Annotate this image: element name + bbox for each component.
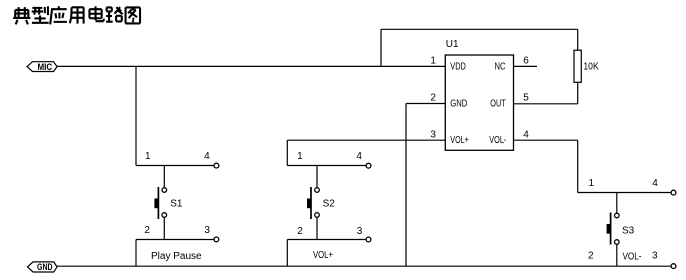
- svg-text:4: 4: [523, 129, 529, 140]
- wire resistor bottom: [577, 82, 579, 104]
- svg-text:1: 1: [589, 178, 595, 189]
- svg-text:5: 5: [523, 93, 529, 104]
- svg-text:3: 3: [430, 129, 436, 140]
- net label MIC: [27, 62, 57, 73]
- pin 3 terminal on rail: [671, 264, 676, 269]
- button S3: [616, 193, 618, 214]
- switch S2: [287, 151, 371, 266]
- svg-text:3: 3: [357, 226, 363, 237]
- svg-text:VOL-: VOL-: [623, 251, 642, 262]
- button S1: [163, 166, 165, 188]
- button S2: [316, 166, 318, 188]
- switch S3: [578, 178, 676, 269]
- wire MIC net: [57, 65, 445, 67]
- svg-text:6: 6: [523, 56, 529, 67]
- svg-text:VOL-: VOL-: [489, 135, 506, 146]
- svg-text:VDD: VDD: [450, 62, 466, 73]
- 图: [126, 7, 140, 23]
- 应: [50, 6, 67, 24]
- resistor R 10K: [574, 50, 599, 82]
- svg-text:3: 3: [204, 225, 210, 236]
- 电: [89, 6, 103, 21]
- svg-text:2: 2: [430, 93, 436, 104]
- op-amp U1 body: [430, 39, 529, 150]
- wire top feedback: [381, 28, 578, 30]
- svg-text:2: 2: [588, 251, 594, 262]
- wire S1 bottom: [136, 239, 214, 241]
- wire GND rail: [57, 265, 672, 267]
- pin 4 terminal: [214, 163, 219, 168]
- svg-text:1: 1: [145, 151, 151, 162]
- svg-text:S2: S2: [323, 199, 336, 210]
- wire S1 pin1 drop: [135, 66, 137, 165]
- wire S2 bottom: [287, 239, 366, 241]
- svg-text:MIC: MIC: [37, 62, 52, 73]
- wire S1 to rail: [135, 240, 137, 267]
- svg-text:4: 4: [652, 178, 658, 189]
- wire VOL+ pin3: [287, 139, 445, 141]
- wire resistor top: [577, 29, 579, 50]
- svg-text:S1: S1: [170, 199, 183, 210]
- svg-text:2: 2: [297, 226, 303, 237]
- wire S3 drop: [577, 140, 579, 192]
- switch S1: [136, 66, 219, 266]
- svg-text:VOL+: VOL+: [450, 135, 469, 146]
- svg-text:NC: NC: [495, 62, 506, 73]
- svg-text:VOL+: VOL+: [313, 250, 333, 261]
- wire S2 top: [287, 165, 366, 167]
- wire VOL- pin4: [514, 139, 578, 141]
- svg-text:3: 3: [652, 251, 658, 262]
- wire OUT pin5: [514, 103, 578, 105]
- svg-text:2: 2: [144, 225, 150, 236]
- svg-text:10K: 10K: [583, 61, 599, 72]
- wire GND pin2 stub: [406, 103, 445, 105]
- wire S3 top: [578, 192, 672, 194]
- net label GND: [28, 262, 58, 273]
- wire vertical tap to top: [380, 29, 382, 66]
- svg-text:U1: U1: [446, 39, 459, 50]
- svg-text:GND: GND: [450, 99, 467, 110]
- svg-text:OUT: OUT: [490, 99, 506, 110]
- wire S2 drop: [286, 140, 288, 165]
- svg-text:Play Pause: Play Pause: [151, 251, 202, 262]
- wire NC pin6 stub: [514, 65, 538, 67]
- wire S1 top: [136, 165, 214, 167]
- 典: [13, 7, 30, 24]
- svg-text:GND: GND: [37, 262, 53, 273]
- 型: [32, 6, 49, 22]
- svg-text:4: 4: [356, 151, 362, 162]
- svg-text:1: 1: [430, 56, 436, 67]
- svg-text:S3: S3: [622, 225, 635, 236]
- svg-text:1: 1: [297, 151, 303, 162]
- title 典型应用电路图 (hand-drawn CJK strokes): [13, 6, 140, 24]
- svg-text:4: 4: [204, 151, 210, 162]
- 路: [106, 7, 122, 21]
- wire GND vertical: [405, 104, 407, 267]
- 用: [70, 7, 84, 23]
- wire S2 to rail: [286, 240, 288, 267]
